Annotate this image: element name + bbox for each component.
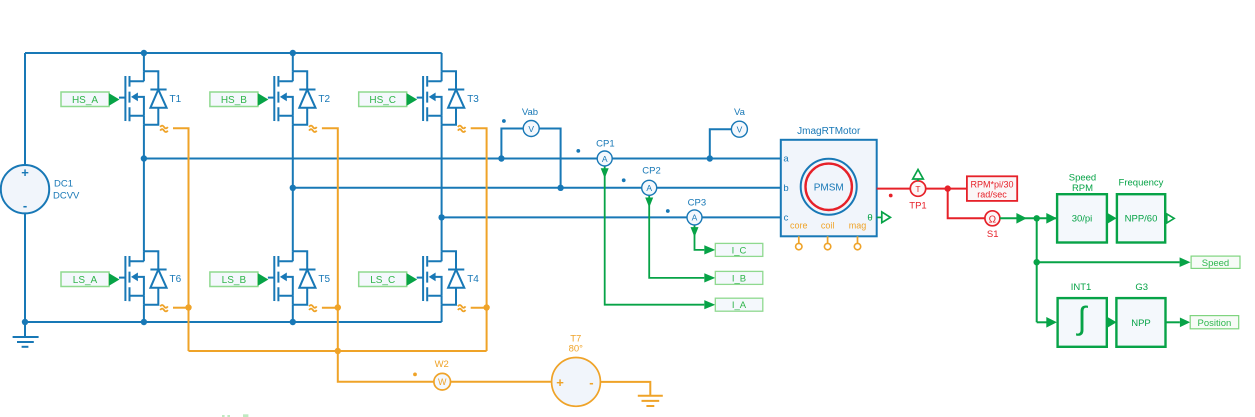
svg-text:+: + [21,165,29,180]
svg-text:PMSM: PMSM [814,182,844,193]
svg-text:T4: T4 [467,274,479,285]
wire: T1 drain drop [143,53,145,71]
wire: left rail upper [24,53,26,165]
arrowhead between 30/pi and NPP/60 [1108,213,1117,224]
label I_A [704,298,763,311]
wire G3 to Position [1166,321,1180,323]
svg-text:A: A [692,213,698,223]
thermal wire T5 [322,307,338,309]
svg-text:CP2: CP2 [642,166,660,177]
transistor T6 [119,251,182,305]
thermal wire T2 [322,128,338,351]
svg-text:b: b [783,183,788,194]
wire: T1 source to phase a [143,125,145,159]
label Position [1180,316,1239,329]
output port after NPP/60 [1167,214,1174,223]
current probe CP3 [666,198,706,250]
wire: T4 source to rail [441,305,443,322]
block INT1 integrator [1058,282,1107,347]
voltmeter Vab [501,107,560,188]
label I_C [704,243,763,256]
svg-text:G3: G3 [1135,282,1148,293]
svg-text:T1: T1 [170,94,182,105]
label Speed [1180,256,1240,269]
thermal junction dots [185,304,191,310]
theta output port [877,212,891,223]
block Speed RPM 30/pi [1057,172,1107,242]
motor block JmagRTMotor [781,126,877,236]
wire: T6 drain from phase a [143,159,145,252]
green arrowhead into 30/pi [1046,213,1057,224]
svg-text:HS_A: HS_A [72,95,98,106]
motor thermal terminal mag [854,236,860,250]
svg-text:+: + [556,375,564,390]
thermal wire T6 [173,307,189,309]
wire to Speed label [1037,261,1180,263]
svg-text:NPP/60: NPP/60 [1125,214,1158,225]
speed sensor S1 [985,211,1000,240]
svg-text:Frequency: Frequency [1119,178,1164,189]
gate label HS_C [359,92,418,107]
svg-text:INT1: INT1 [1071,282,1092,293]
svg-text:-: - [589,375,593,390]
svg-text:LS_A: LS_A [73,275,98,286]
annotation box RPM*pi/30 [967,176,1017,201]
torque probe TP1 [909,170,926,212]
svg-text:rad/sec: rad/sec [977,190,1007,200]
wire: phase b [293,187,781,189]
gate label HS_B [210,92,269,107]
svg-text:RPM*pi/30: RPM*pi/30 [970,180,1013,190]
thermal port T1 [160,126,168,132]
arrowhead between INT1 and G3 [1108,317,1117,328]
svg-text:LS_B: LS_B [222,275,247,286]
svg-text:T5: T5 [318,274,330,285]
thermal port T2 [309,126,317,132]
svg-text:Speed: Speed [1069,172,1096,183]
svg-text:CP1: CP1 [596,138,614,149]
green wire S1 to 30/pi [1000,217,1057,219]
svg-text:Ω: Ω [989,214,997,225]
svg-text:a: a [783,154,789,165]
svg-text:I_B: I_B [732,273,746,284]
svg-text:V: V [737,125,743,135]
svg-text:Va: Va [734,107,746,118]
thermal port T3 [458,126,466,132]
wire: T3 drain drop [441,53,443,71]
svg-text:-: - [23,198,27,213]
gate label HS_A [61,92,120,107]
thermal wire T3 [471,128,487,351]
green vertical branch [1036,218,1038,322]
gate label LS_B [210,272,269,287]
power probe W2 [413,359,450,390]
svg-text:T3: T3 [467,94,479,105]
svg-text:JmagRTMotor: JmagRTMotor [797,126,861,137]
temperature source T7 [552,334,601,407]
thermal bus [189,350,487,352]
wire: T5 drain from phase b [292,188,294,251]
junction dots bottom rail [22,319,28,325]
svg-text:80°: 80° [569,344,584,355]
svg-text:V: V [528,124,534,134]
arrowhead into INT1 [1046,317,1057,328]
transistor T2 [268,71,331,125]
wire: phase c [442,216,781,218]
transistor T5 [268,251,331,305]
gate label LS_A [61,272,120,287]
svg-text:HS_B: HS_B [221,95,247,106]
svg-text:RPM: RPM [1072,183,1093,194]
svg-text:NPP: NPP [1131,318,1151,329]
green junction dot [1034,215,1040,221]
svg-text:HS_C: HS_C [369,95,396,106]
svg-text:θ: θ [867,213,872,224]
thermal wire to W2 [338,351,434,382]
wire T7 to ground [600,382,650,396]
red wire to S1 [948,189,985,219]
thermal port T6 [160,305,168,311]
svg-text:W2: W2 [435,359,449,370]
wire: T3 source to phase c [441,125,443,218]
svg-text:T2: T2 [318,94,330,105]
wire: T5 source to rail [292,305,294,322]
svg-text:T: T [915,184,920,194]
red polarity dot [889,194,893,198]
svg-text:Vab: Vab [522,107,538,118]
ground (DC bus) [13,322,39,347]
svg-text:CP3: CP3 [688,198,706,209]
transistor T4 [417,251,480,305]
thermal wire T1 [173,128,189,351]
wire into INT1 [1037,321,1047,323]
svg-text:LS_C: LS_C [370,275,395,286]
wire W2 to T7 [451,381,552,383]
red shaft wire [877,188,967,190]
svg-text:A: A [646,183,652,193]
transistor T3 [417,71,480,125]
svg-text:A: A [602,154,608,164]
DC source DC1 [1,165,80,213]
red junction dot [945,185,951,191]
svg-text:S1: S1 [987,229,999,240]
wire: top DC bus [25,52,442,54]
svg-text:30/pi: 30/pi [1072,214,1093,225]
block Frequency NPP/60 [1117,178,1165,243]
svg-text:I_C: I_C [732,245,747,256]
wire: phase a [144,158,781,160]
label I_B [704,271,763,284]
wire: left rail lower [24,213,26,322]
svg-text:T6: T6 [170,274,182,285]
block G3 NPP [1116,282,1165,347]
svg-text:DC1: DC1 [54,179,73,190]
wire: T2 source to phase b [292,125,294,188]
voltmeter Va [710,107,748,159]
wire: T4 drain from phase c [441,217,443,251]
motor thermal terminal core [796,236,802,250]
svg-text:Speed: Speed [1202,258,1229,269]
thermal wire T4 [471,307,487,309]
transistor T1 [119,71,182,125]
thermal port T4 [458,305,466,311]
wire: bottom DC rail [25,321,442,323]
green arrowhead after S1 [1016,213,1026,224]
wire: T2 drain drop [292,53,294,71]
svg-text:Position: Position [1197,318,1231,329]
svg-text:W: W [438,377,447,387]
wire: T6 source to rail [143,305,145,322]
svg-text:coil: coil [821,221,835,231]
junction dots top bus [141,50,147,56]
current probe CP1 [576,138,704,304]
svg-text:I_A: I_A [732,300,747,311]
green junction dot lower [1034,259,1040,265]
cropped text bottom edge [222,414,248,417]
junction dots phase wires [141,155,147,161]
motor thermal terminal coil [824,236,830,250]
svg-text:DCVV: DCVV [53,191,80,202]
svg-text:TP1: TP1 [909,201,926,212]
svg-text:core: core [790,221,808,231]
svg-text:c: c [784,213,789,224]
ground (thermal) [638,396,663,406]
svg-text:mag: mag [849,221,867,231]
current probe CP2 [622,166,705,278]
gate label LS_C [359,272,418,287]
thermal port T5 [309,305,317,311]
